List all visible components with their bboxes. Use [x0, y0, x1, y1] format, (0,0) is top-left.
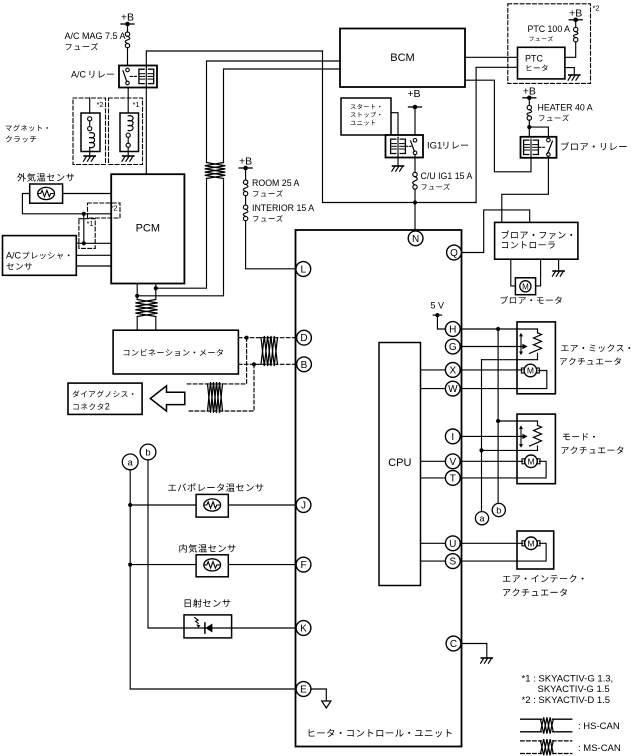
- wire CPU-U: [421, 542, 446, 544]
- terminal V: [445, 454, 460, 469]
- wire between fuses: [245, 196, 247, 205]
- wire I wiper: [460, 434, 527, 439]
- wire CPU-S: [421, 560, 446, 562]
- terminal H: [445, 322, 460, 337]
- label heater control unit: [309, 729, 452, 737]
- junction dot: [413, 200, 417, 204]
- svg-text:K: K: [300, 624, 307, 635]
- wire V to motor: [460, 460, 523, 462]
- terminal Q: [447, 245, 462, 260]
- power +B (ROOM fuse): [239, 156, 252, 181]
- dashed box *2 (PCM input): [88, 203, 121, 218]
- svg-text:L: L: [301, 265, 307, 276]
- start-stop unit (box): [341, 98, 391, 135]
- wire b net (left): [148, 460, 296, 628]
- wire blower coil to BCM: [465, 80, 531, 172]
- arrow to diagnosis connector: [150, 386, 185, 411]
- wire sensor to PCM: [63, 193, 112, 195]
- wire branch down through *1: [83, 214, 85, 244]
- relay IG1 (box): [386, 135, 424, 158]
- terminal D: [297, 330, 312, 345]
- PTC heater (box): [518, 47, 565, 79]
- thermistor (cabin): [204, 559, 221, 571]
- magnet clutch dashed box *1: [109, 98, 143, 165]
- BCM (box): [340, 29, 465, 88]
- blower fan controller (box): [495, 222, 578, 259]
- wire BCM to PTC heater: [465, 56, 518, 58]
- relay blower (box): [521, 137, 557, 158]
- slider track (air mix): [519, 333, 523, 355]
- svg-text:INTERIOR 15 A: INTERIOR 15 A: [252, 203, 314, 213]
- wire MS-CAN B (dashed): [238, 363, 296, 365]
- svg-text:b: b: [496, 505, 501, 515]
- svg-text:V: V: [449, 457, 456, 468]
- magnet clutch dashed box *2: [73, 98, 106, 165]
- label mode actuator: [562, 433, 624, 454]
- wire a net vertical: [481, 360, 483, 512]
- svg-text:HEATER 40 A: HEATER 40 A: [538, 103, 593, 113]
- wire IG1 to fuse: [414, 155, 416, 173]
- svg-text:I: I: [451, 432, 454, 443]
- wire pressure 3: [76, 265, 111, 267]
- thermistor (evaporator): [204, 499, 221, 511]
- junction dot: [252, 362, 256, 366]
- junction dot: [527, 125, 531, 129]
- svg-text:S: S: [449, 557, 456, 568]
- wire CPU-V: [421, 460, 446, 462]
- wire pressure 1: [76, 242, 111, 244]
- node a (left): [122, 454, 138, 470]
- terminal G: [445, 339, 460, 354]
- sensor box sunlight: [184, 615, 232, 638]
- blower motor (box): [515, 278, 535, 295]
- clutch coil *2 (box): [81, 98, 100, 152]
- twisted pair HS-CAN: [205, 163, 226, 179]
- svg-text:BCM: BCM: [390, 52, 414, 64]
- label cabin temp sensor: [179, 544, 235, 553]
- fuse HEATER 40 A: [527, 103, 593, 122]
- wire pressure 2: [76, 254, 111, 256]
- svg-text:X: X: [449, 365, 456, 376]
- terminal K: [296, 621, 311, 636]
- power +B (HEATER fuse): [523, 86, 536, 106]
- slider track (mode): [519, 425, 523, 447]
- wire relay coil to PCM: [145, 88, 147, 175]
- motor (air intake): [522, 537, 540, 550]
- svg-text:Q: Q: [450, 248, 458, 259]
- wire S to motor: [460, 543, 546, 561]
- svg-text:N: N: [412, 234, 419, 245]
- wire T to motor: [460, 461, 546, 478]
- ground (IG1 coil): [392, 158, 404, 172]
- wire H to resistor: [460, 328, 537, 330]
- label blower motor: [501, 296, 562, 304]
- relay IG1 coil: [391, 137, 406, 157]
- diagnosis connector 2 (box): [68, 383, 142, 414]
- twisted pair PCM-meter: [135, 300, 157, 317]
- wire F: [130, 564, 296, 566]
- wire a net (left): [130, 470, 296, 689]
- svg-text:H: H: [449, 325, 456, 336]
- terminal L: [296, 262, 311, 277]
- ground (terminal C): [481, 658, 493, 663]
- svg-text:C: C: [450, 639, 457, 650]
- fuse PTC 100 A: [528, 24, 579, 42]
- wire sensor left branch: [22, 194, 111, 214]
- svg-text:b: b: [145, 448, 150, 459]
- wire J: [130, 504, 296, 506]
- svg-text:PTC 100 A: PTC 100 A: [528, 24, 571, 34]
- svg-text:A/C: A/C: [71, 70, 87, 80]
- label air mix actuator: [560, 344, 630, 365]
- wire blower contact to controller: [502, 156, 549, 222]
- svg-text:*1 : SKYACTIV-G 1.3,: *1 : SKYACTIV-G 1.3,: [522, 674, 614, 685]
- motor (air mix): [521, 364, 539, 377]
- terminal F: [296, 557, 311, 572]
- air intake actuator (box): [517, 531, 554, 569]
- clutch coil *2 internals: [88, 117, 95, 156]
- svg-text:M: M: [527, 366, 534, 376]
- legend MS-CAN: [521, 739, 621, 755]
- terminal B: [297, 357, 312, 372]
- wire CPU-X: [421, 369, 446, 371]
- wire E with signal ground: [311, 689, 331, 708]
- wire b net vertical: [497, 329, 499, 503]
- power +B (A/C MAG fuse): [121, 12, 134, 33]
- junction dot (J): [128, 503, 132, 507]
- junction dot: [245, 336, 249, 340]
- fuse ROOM 25 A: [243, 178, 299, 197]
- label outside air temp sensor: [17, 173, 74, 182]
- PCM (box): [111, 174, 184, 283]
- wire U to motor: [460, 542, 523, 544]
- svg-text:+B: +B: [407, 88, 420, 100]
- junction dot: [82, 212, 86, 216]
- svg-text:M: M: [522, 282, 529, 291]
- sensor box cabin temp: [196, 555, 228, 577]
- svg-text:B: B: [301, 360, 308, 371]
- node a (right): [475, 512, 488, 525]
- svg-text:*2: *2: [593, 4, 600, 13]
- relay blower contact: [539, 138, 553, 156]
- junction dot: [154, 286, 158, 290]
- terminal C: [446, 636, 461, 651]
- wire up to PTC: [476, 67, 517, 202]
- fuse INTERIOR 15 A: [243, 203, 314, 222]
- legend note *1/*2: [522, 674, 614, 707]
- dashed box *1 (PCM input): [79, 219, 95, 249]
- svg-text:IG1: IG1: [427, 141, 442, 152]
- air mix actuator (box): [517, 322, 555, 394]
- terminal I: [445, 429, 460, 444]
- svg-text:F: F: [300, 560, 306, 571]
- svg-text:M: M: [527, 539, 534, 549]
- wire HS-CAN 2 (BCM left): [137, 69, 340, 296]
- terminal W: [445, 381, 460, 396]
- legend HS-CAN: [521, 717, 620, 733]
- label A/C pressure sensor: [6, 251, 69, 270]
- relay IG1 contact: [405, 139, 417, 155]
- svg-text:W: W: [448, 384, 458, 395]
- wire CPU-T: [421, 477, 446, 479]
- wire mode resistor to a net: [482, 449, 538, 451]
- svg-text:M: M: [527, 457, 534, 467]
- clutch coil *1 (box): [120, 113, 139, 152]
- power +B (IG1): [407, 88, 421, 139]
- wire fuse to PTC heater: [565, 42, 576, 58]
- svg-text:a: a: [128, 457, 134, 468]
- svg-text:ROOM 25 A: ROOM 25 A: [252, 178, 300, 188]
- relay A/C contact: [123, 68, 138, 85]
- ground (clutch *1): [122, 156, 134, 161]
- sensor box evaporator temp: [196, 494, 228, 517]
- wire down x322.5 to junction: [322, 51, 324, 203]
- junction dot: [82, 241, 86, 245]
- svg-text:2: 2: [105, 402, 110, 412]
- wire A/C relay coil to BCM-net: [146, 51, 322, 66]
- svg-text:PTC: PTC: [525, 54, 544, 64]
- terminal T: [445, 471, 460, 486]
- svg-text:G: G: [449, 342, 457, 353]
- svg-text:a: a: [479, 514, 484, 524]
- terminal S: [445, 554, 460, 569]
- svg-text:*1: *1: [87, 219, 94, 228]
- label IG1 relay: [427, 141, 468, 152]
- wire fuse to junction/N: [414, 189, 416, 231]
- fuse A/C MAG 7.5 A: [65, 31, 130, 66]
- junction dot (b/mode): [496, 419, 500, 423]
- svg-text:: HS-CAN: : HS-CAN: [578, 721, 620, 732]
- clutch coil *1 internals: [126, 116, 133, 156]
- fuse C/U IG1 15 A: [413, 171, 473, 190]
- junction dot (b net): [496, 327, 500, 331]
- terminal U: [445, 536, 460, 551]
- wire G wiper: [460, 344, 527, 349]
- svg-text:*2 : SKYACTIV-D 1.5: *2 : SKYACTIV-D 1.5: [522, 695, 611, 706]
- svg-text:*1: *1: [133, 100, 140, 109]
- wire Q to controller: [461, 210, 529, 253]
- svg-text:5 V: 5 V: [431, 301, 445, 311]
- wire PCM to meter 1: [136, 284, 138, 331]
- label air intake actuator: [503, 575, 584, 597]
- resistor (mode pot): [530, 425, 542, 450]
- wire C to ground: [461, 644, 486, 658]
- svg-text:U: U: [449, 539, 456, 550]
- CPU (box): [379, 343, 421, 586]
- svg-text:E: E: [300, 685, 307, 696]
- label evaporator temp sensor: [168, 483, 263, 491]
- svg-text:CPU: CPU: [388, 457, 411, 469]
- heater control unit (box): [296, 230, 462, 747]
- junction dot (a/mode): [479, 448, 483, 452]
- label magnet clutch: [6, 125, 48, 143]
- resistor (air mix pot): [530, 329, 542, 360]
- svg-text:+B: +B: [239, 156, 252, 168]
- wire diagnosis pair (dashed): [187, 338, 254, 411]
- ground (PTC): [565, 68, 580, 81]
- ground (controller): [552, 259, 564, 276]
- wire MS-CAN D (dashed): [238, 337, 296, 339]
- wire controller to motor L: [511, 259, 516, 286]
- motor (mode): [522, 455, 540, 468]
- label A/C relay: [71, 70, 114, 80]
- svg-text:A/C: A/C: [6, 251, 22, 261]
- wire resistor bottom to a net: [482, 359, 538, 361]
- svg-text:SKYACTIV-G 1.5: SKYACTIV-G 1.5: [538, 684, 610, 695]
- svg-text:C/U IG1 15 A: C/U IG1 15 A: [421, 171, 473, 181]
- svg-text:T: T: [450, 473, 456, 484]
- wire to terminal L: [246, 221, 296, 269]
- wire b to mode resistor: [498, 421, 537, 425]
- node b (left): [140, 444, 156, 460]
- wire fuse to relay: [528, 120, 530, 137]
- wire X to motor: [460, 369, 522, 371]
- label blower relay: [561, 142, 626, 150]
- relay A/C (box): [119, 66, 157, 88]
- terminal J: [296, 498, 311, 513]
- svg-text:J: J: [301, 501, 306, 512]
- sensor box outside air temp: [30, 184, 63, 203]
- sensor box A/C pressure: [3, 236, 77, 276]
- svg-text:A/C MAG 7.5 A: A/C MAG 7.5 A: [65, 31, 126, 41]
- svg-text:PCM: PCM: [136, 223, 160, 235]
- wire branch to contact: [529, 127, 548, 138]
- wire net y202.5: [323, 202, 477, 204]
- svg-text:D: D: [300, 333, 307, 344]
- junction dot (F): [128, 563, 132, 567]
- wire CPU-W: [421, 388, 446, 390]
- svg-text:: MS-CAN: : MS-CAN: [578, 743, 621, 754]
- relay blower coil: [524, 139, 539, 158]
- mode actuator (box): [517, 414, 555, 484]
- twisted pair MS-CAN (diagnosis): [208, 382, 223, 413]
- label sunlight sensor: [185, 599, 231, 608]
- wire controller to motor R: [536, 259, 541, 286]
- thermistor (outside air): [38, 187, 55, 199]
- photodiode (sunlight): [184, 618, 232, 634]
- PTC dashed box *2: [508, 4, 600, 84]
- terminal E: [296, 682, 311, 697]
- terminal N: [408, 231, 423, 246]
- ground (clutch *2): [84, 156, 96, 161]
- relay A/C coil: [139, 66, 154, 88]
- svg-text:*2: *2: [97, 100, 104, 109]
- node b (right): [492, 503, 505, 516]
- wire relay switch to magnet clutch *1: [127, 88, 129, 114]
- junction dot: [135, 294, 139, 298]
- wire W to motor: [460, 371, 547, 389]
- wire HS-CAN 1 (BCM left): [156, 61, 340, 288]
- wire PCM to meter 2: [155, 284, 157, 331]
- twisted pair MS-CAN (D/B): [261, 336, 278, 366]
- power 5V: [431, 301, 446, 330]
- power +B (PTC fuse): [569, 7, 582, 27]
- terminal X: [445, 363, 460, 378]
- combination meter (box): [113, 330, 238, 374]
- wire start-stop to IG1 coil: [391, 113, 398, 138]
